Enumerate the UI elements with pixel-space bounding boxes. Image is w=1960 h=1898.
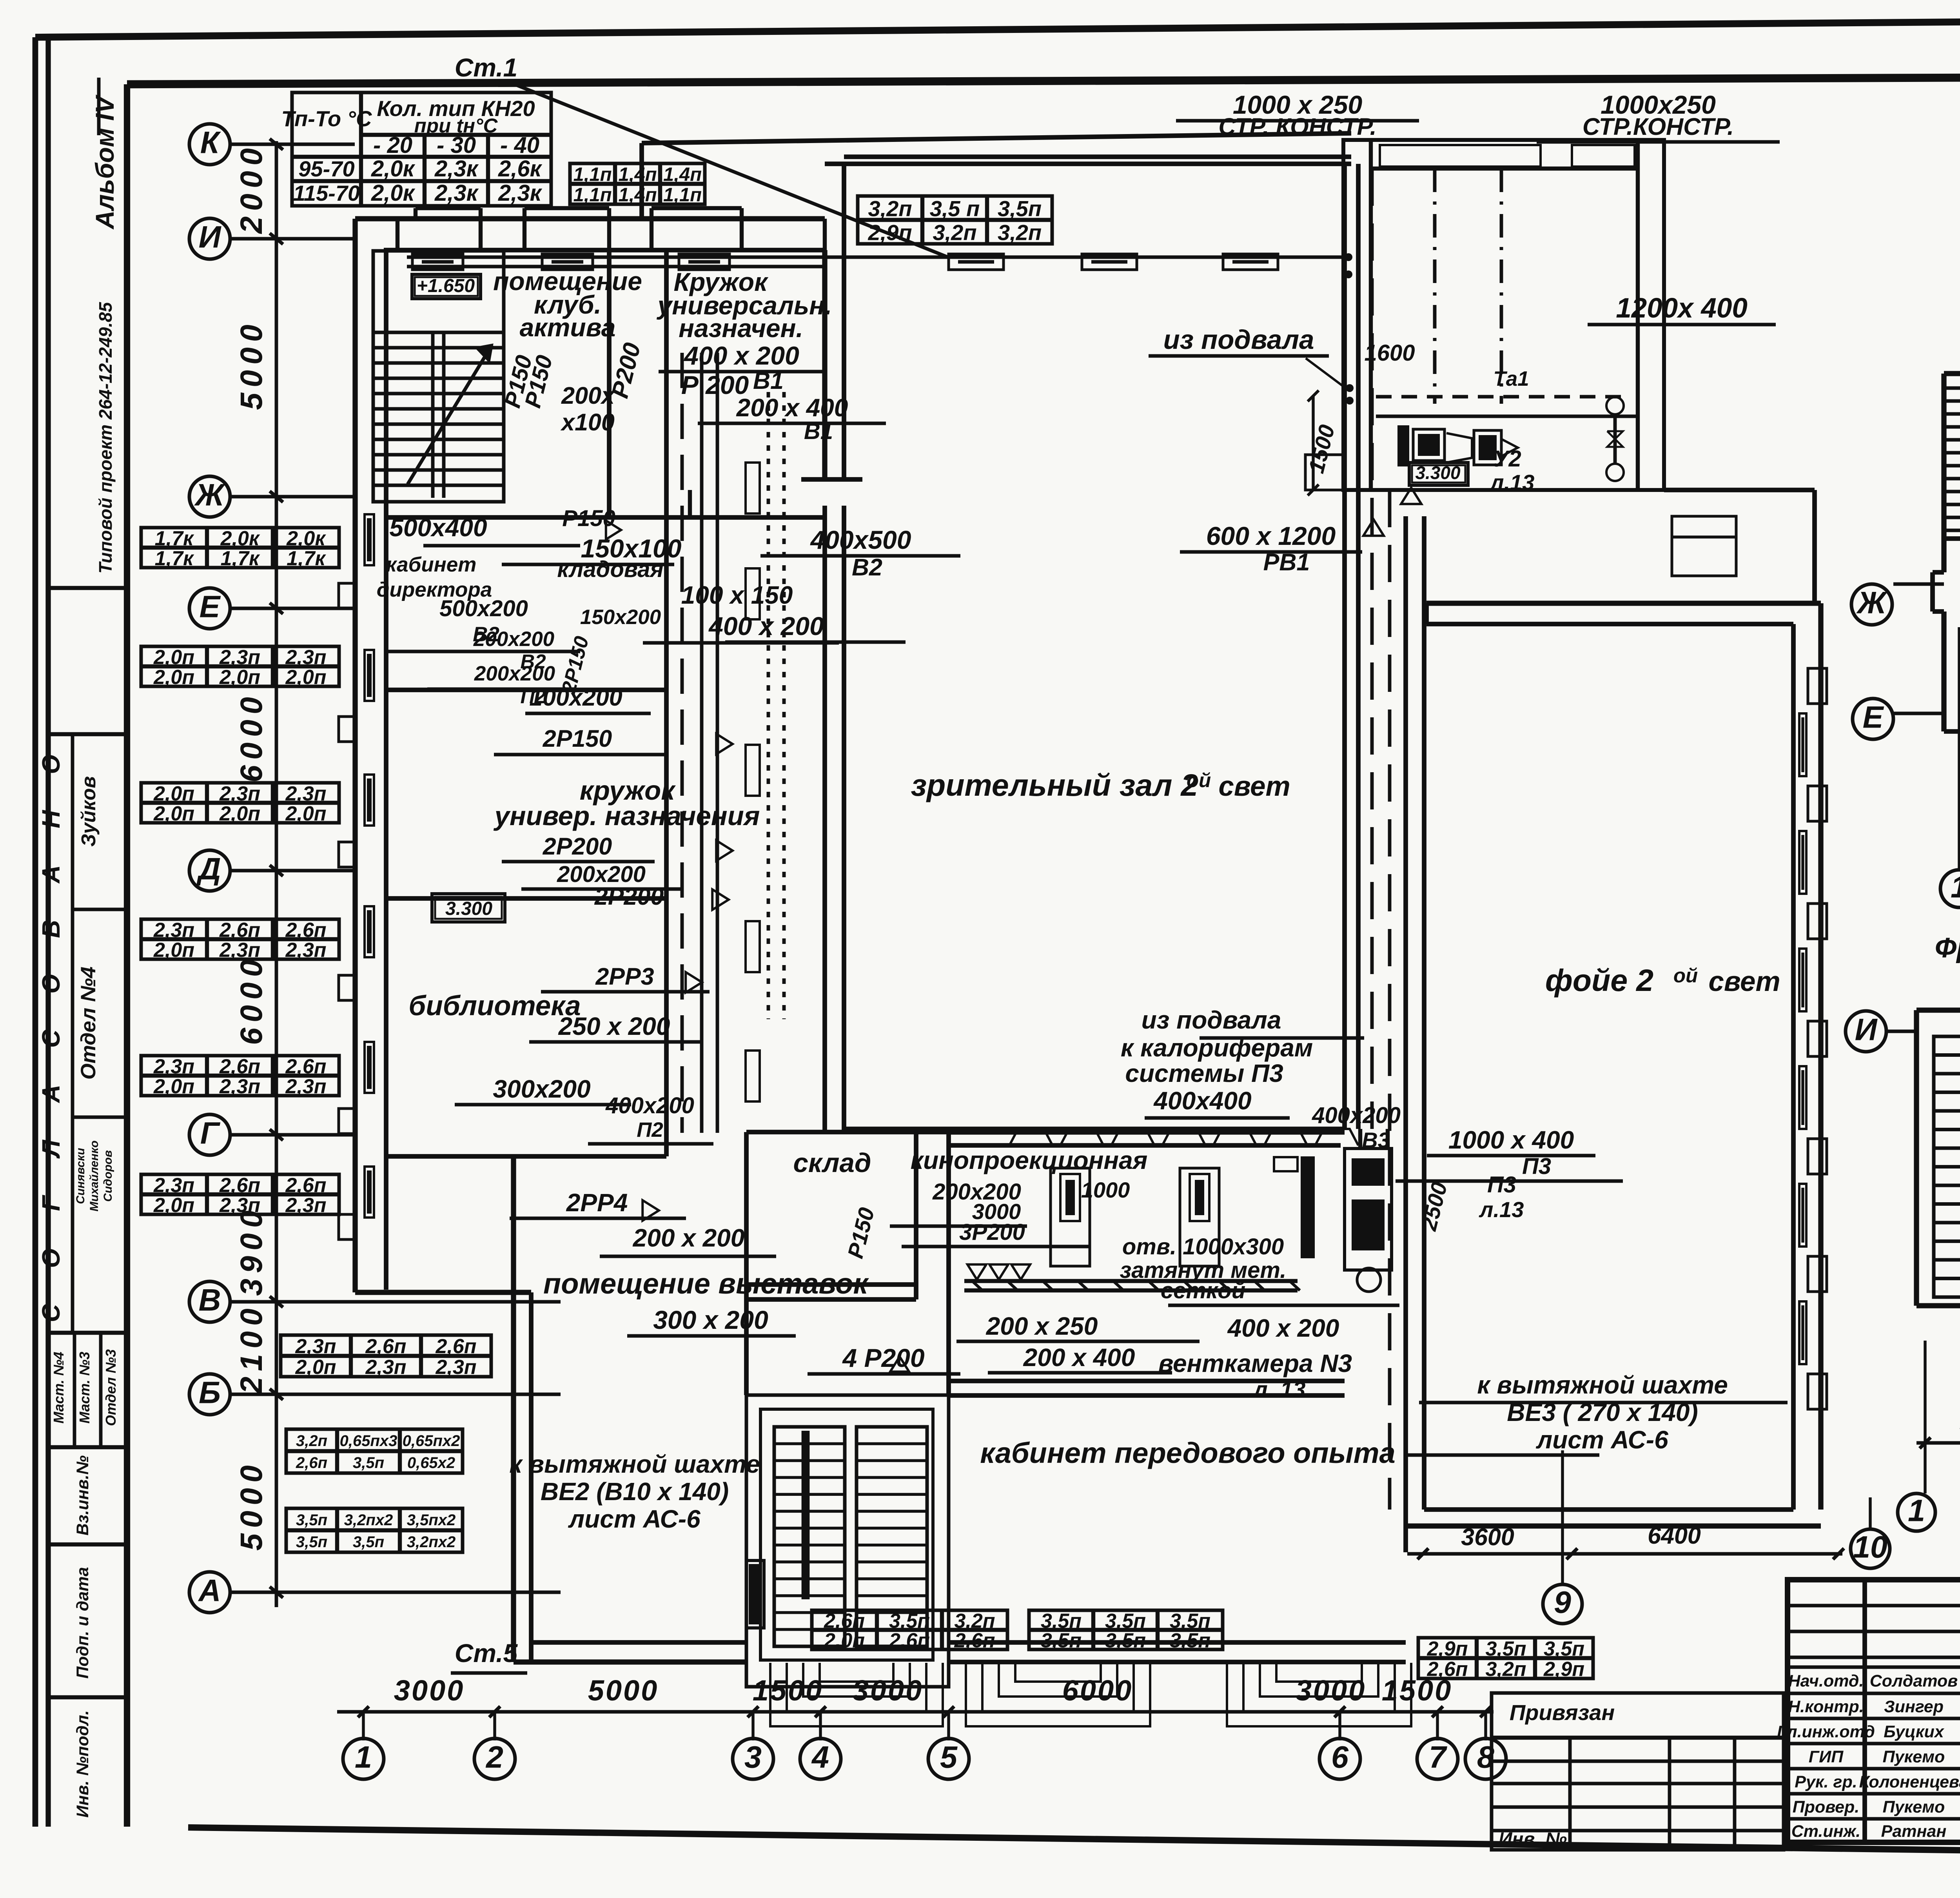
svg-text:1,4п: 1,4п: [663, 164, 702, 185]
svg-text:2,6п: 2,6п: [365, 1335, 406, 1358]
svg-text:О: О: [37, 1248, 65, 1268]
svg-text:2,0п: 2,0п: [153, 1075, 194, 1098]
svg-text:Р150: Р150: [562, 506, 615, 531]
svg-text:3.300: 3.300: [1415, 463, 1461, 483]
svg-text:2,0п: 2,0п: [153, 1194, 194, 1217]
svg-text:1,7к: 1,7к: [155, 527, 194, 550]
svg-text:150х200: 150х200: [580, 606, 661, 629]
svg-text:1: 1: [1951, 869, 1960, 904]
svg-text:3.300: 3.300: [445, 898, 492, 919]
svg-text:2,0п: 2,0п: [153, 646, 194, 669]
svg-text:СТР.КОНСТР.: СТР.КОНСТР.: [1583, 113, 1734, 140]
svg-text:2,3п: 2,3п: [153, 1055, 194, 1078]
svg-text:кабинет: кабинет: [386, 553, 477, 576]
svg-text:из подвала: из подвала: [1163, 325, 1314, 355]
svg-text:1,7к: 1,7к: [221, 547, 260, 570]
svg-text:2,0п: 2,0п: [153, 782, 194, 805]
svg-text:3,2п: 3,2п: [868, 196, 912, 221]
svg-text:2,0к: 2,0к: [286, 527, 326, 550]
svg-text:4 Р200: 4 Р200: [842, 1343, 924, 1372]
svg-text:2,0п: 2,0п: [219, 802, 260, 825]
svg-text:Е: Е: [1863, 699, 1884, 734]
svg-text:И: И: [199, 219, 222, 254]
svg-text:ВЕ2 (В10 х 140): ВЕ2 (В10 х 140): [541, 1477, 729, 1506]
svg-text:400 х 200: 400 х 200: [683, 341, 799, 370]
svg-text:Инв. №подл.: Инв. №подл.: [73, 1710, 92, 1818]
svg-text:3,5п: 3,5п: [353, 1533, 384, 1551]
svg-text:3,5п: 3,5п: [353, 1454, 384, 1472]
svg-text:2,3п: 2,3п: [219, 782, 260, 805]
svg-text:1600: 1600: [1364, 340, 1415, 366]
svg-text:600 х 1200: 600 х 1200: [1206, 521, 1336, 550]
svg-text:системы П3: системы П3: [1125, 1059, 1283, 1087]
svg-text:Маст. №4: Маст. №4: [51, 1352, 67, 1423]
svg-text:300 х 200: 300 х 200: [653, 1305, 768, 1334]
svg-text:300х200: 300х200: [493, 1075, 590, 1103]
svg-text:1,7к: 1,7к: [155, 547, 194, 570]
svg-text:С: С: [37, 1029, 65, 1048]
svg-text:1000 х 400: 1000 х 400: [1448, 1126, 1574, 1154]
svg-text:10: 10: [1853, 1529, 1887, 1564]
svg-text:л. 13: л. 13: [1252, 1377, 1306, 1403]
svg-text:400 х 200: 400 х 200: [708, 611, 824, 641]
svg-text:2,6п: 2,6п: [219, 1174, 260, 1197]
svg-text:0,65х2: 0,65х2: [407, 1454, 455, 1472]
svg-text:1,7к: 1,7к: [287, 547, 326, 570]
svg-text:Привязан: Привязан: [1510, 1700, 1615, 1725]
svg-text:2РР3: 2РР3: [595, 963, 654, 990]
svg-text:О: О: [37, 755, 65, 774]
svg-text:Г: Г: [37, 1195, 65, 1211]
svg-text:3,2п: 3,2п: [998, 220, 1042, 245]
svg-text:6000: 6000: [234, 954, 269, 1045]
svg-text:2,3п: 2,3п: [219, 1075, 260, 1098]
svg-text:Буцких: Буцких: [1884, 1722, 1945, 1741]
svg-text:актива: актива: [520, 313, 616, 342]
svg-text:3,5 п: 3,5 п: [930, 196, 980, 221]
svg-text:Н: Н: [37, 809, 65, 828]
svg-text:7: 7: [1429, 1739, 1448, 1774]
svg-text:3900: 3900: [234, 1205, 269, 1296]
svg-text:6400: 6400: [1648, 1522, 1701, 1549]
svg-text:2,3п: 2,3п: [285, 782, 326, 805]
svg-text:3,5п: 3,5п: [296, 1533, 327, 1551]
svg-text:Ст.1: Ст.1: [455, 53, 518, 82]
svg-text:2,0п: 2,0п: [153, 939, 194, 962]
svg-text:2,6п: 2,6п: [219, 919, 260, 942]
svg-text:3: 3: [744, 1739, 762, 1774]
svg-text:л.13: л.13: [1479, 1197, 1524, 1222]
svg-text:2,0п: 2,0п: [285, 666, 326, 689]
svg-text:200 х 250: 200 х 250: [986, 1312, 1098, 1340]
svg-text:5: 5: [940, 1739, 958, 1774]
svg-text:2,3п: 2,3п: [435, 1356, 476, 1379]
svg-text:3,5п: 3,5п: [1485, 1637, 1526, 1660]
svg-text:3Р200: 3Р200: [959, 1219, 1025, 1245]
svg-text:В: В: [198, 1282, 221, 1317]
svg-text:2,0к: 2,0к: [220, 527, 260, 550]
svg-text:Ратнан: Ратнан: [1881, 1822, 1947, 1841]
svg-text:2,0п: 2,0п: [285, 802, 326, 825]
svg-text:Л: Л: [37, 1139, 65, 1159]
svg-text:Солдатов: Солдатов: [1870, 1672, 1958, 1691]
svg-text:2,3п: 2,3п: [285, 939, 326, 962]
svg-text:Синявски: Синявски: [74, 1148, 87, 1204]
svg-text:Типовой проект 264-12-249.85: Типовой проект 264-12-249.85: [95, 301, 116, 573]
svg-text:2,0к: 2,0к: [371, 180, 416, 206]
svg-text:400 х 200: 400 х 200: [1227, 1314, 1339, 1342]
svg-text:250 х 200: 250 х 200: [558, 1012, 670, 1040]
svg-text:2,3к: 2,3к: [434, 156, 479, 181]
svg-text:П3: П3: [1522, 1154, 1551, 1179]
svg-text:400х200: 400х200: [1312, 1103, 1401, 1128]
svg-text:Пукемо: Пукемо: [1883, 1747, 1945, 1766]
svg-text:2,0п: 2,0п: [219, 666, 260, 689]
svg-text:1,1п: 1,1п: [573, 164, 612, 185]
svg-text:200 х 200: 200 х 200: [633, 1224, 745, 1252]
svg-text:Г: Г: [200, 1115, 221, 1150]
svg-text:универ. назначения: универ. назначения: [494, 801, 760, 831]
svg-text:ой: ой: [1673, 964, 1698, 987]
svg-text:2Р150: 2Р150: [543, 725, 612, 752]
svg-text:200 х 400: 200 х 400: [736, 394, 848, 422]
svg-text:3,5п: 3,5п: [296, 1512, 327, 1529]
svg-text:2РР4: 2РР4: [566, 1189, 628, 1217]
svg-text:Ст.инж.: Ст.инж.: [1791, 1822, 1861, 1841]
svg-text:К: К: [200, 125, 221, 160]
svg-text:склад: склад: [793, 1148, 871, 1178]
svg-text:назначен.: назначен.: [679, 314, 803, 343]
svg-text:Сидоров: Сидоров: [102, 1150, 114, 1202]
svg-text:2,3п: 2,3п: [285, 646, 326, 669]
svg-text:0,65пх3: 0,65пх3: [340, 1432, 397, 1450]
svg-text:Ст.5: Ст.5: [455, 1639, 518, 1668]
svg-text:2000: 2000: [234, 143, 269, 234]
svg-text:0,65пх2: 0,65пх2: [403, 1432, 460, 1450]
svg-text:2,3п: 2,3п: [219, 1194, 260, 1217]
svg-text:3,5п: 3,5п: [1544, 1637, 1584, 1660]
svg-text:Ж: Ж: [1856, 585, 1887, 620]
svg-text:зрительный зал 2: зрительный зал 2: [911, 768, 1198, 802]
svg-text:2,0п: 2,0п: [153, 666, 194, 689]
svg-text:2,3п: 2,3п: [219, 939, 260, 962]
svg-text:3,2пх2: 3,2пх2: [407, 1533, 456, 1551]
svg-text:2,3п: 2,3п: [153, 919, 194, 942]
svg-text:Вз.инв.№: Вз.инв.№: [73, 1455, 92, 1535]
svg-text:2,9п: 2,9п: [1426, 1637, 1468, 1660]
svg-text:Тп-То °С: Тп-То °С: [281, 106, 373, 131]
svg-text:1500: 1500: [1382, 1674, 1453, 1707]
svg-text:свет: свет: [1218, 771, 1290, 802]
svg-text:2,9п: 2,9п: [1543, 1658, 1584, 1680]
svg-text:3,5пх2: 3,5пх2: [407, 1512, 456, 1529]
svg-text:115-70: 115-70: [293, 181, 360, 205]
svg-text:6000: 6000: [1062, 1674, 1133, 1707]
svg-text:5000: 5000: [234, 319, 269, 410]
svg-text:2,3п: 2,3п: [285, 1194, 326, 1217]
svg-text:Пукемо: Пукемо: [1883, 1798, 1945, 1816]
svg-text:Провер.: Провер.: [1793, 1798, 1860, 1816]
svg-text:Та1: Та1: [1493, 367, 1529, 390]
svg-text:2,3п: 2,3п: [365, 1356, 406, 1379]
svg-text:из подвала: из подвала: [1142, 1006, 1281, 1034]
svg-text:2,0к: 2,0к: [371, 156, 416, 181]
svg-text:фойе 2: фойе 2: [1545, 963, 1653, 998]
svg-text:Михайленко: Михайленко: [88, 1140, 101, 1211]
svg-text:2,6п: 2,6п: [285, 1055, 326, 1078]
svg-text:500х200: 500х200: [439, 596, 528, 621]
svg-text:100 х 150: 100 х 150: [681, 581, 793, 609]
svg-text:Фрагмент плана на отм. 6.60: Фрагмент плана на отм. 6.600: [1935, 933, 1960, 964]
svg-text:Н.контр.: Н.контр.: [1788, 1697, 1864, 1716]
svg-text:В: В: [37, 920, 65, 938]
svg-text:П3: П3: [1487, 1172, 1516, 1198]
svg-text:1000: 1000: [1081, 1178, 1130, 1202]
svg-text:3000: 3000: [853, 1674, 924, 1707]
svg-text:1,1п: 1,1п: [663, 184, 702, 205]
svg-text:И: И: [1855, 1012, 1878, 1047]
svg-text:отв. 1000х300: отв. 1000х300: [1122, 1234, 1284, 1259]
svg-text:2,6п: 2,6п: [285, 919, 326, 942]
svg-text:х100: х100: [560, 409, 615, 435]
svg-text:Б: Б: [199, 1375, 221, 1410]
svg-text:1,1п: 1,1п: [573, 184, 612, 205]
svg-text:Гл.инж.отд: Гл.инж.отд: [1777, 1722, 1875, 1741]
svg-text:2,6п: 2,6п: [285, 1174, 326, 1197]
svg-text:5000: 5000: [234, 1460, 269, 1551]
svg-text:Маст. №3: Маст. №3: [76, 1352, 93, 1423]
svg-text:сеткой: сеткой: [1161, 1278, 1245, 1303]
svg-text:Зингер: Зингер: [1884, 1697, 1944, 1716]
svg-text:венткамера N3: венткамера N3: [1158, 1349, 1352, 1377]
svg-text:В3: В3: [1362, 1128, 1390, 1152]
svg-text:3,2п: 3,2п: [1485, 1658, 1526, 1680]
svg-text:2,3п: 2,3п: [285, 1075, 326, 1098]
svg-text:Рук. гр.: Рук. гр.: [1795, 1773, 1857, 1791]
svg-text:лист АС-6: лист АС-6: [1535, 1426, 1668, 1454]
svg-text:3,5п: 3,5п: [998, 196, 1042, 221]
svg-text:95-70: 95-70: [298, 156, 354, 181]
svg-text:2,3п: 2,3п: [219, 646, 260, 669]
svg-text:2Р200: 2Р200: [543, 833, 612, 860]
svg-text:2,6п: 2,6п: [889, 1629, 930, 1652]
svg-text:- 20: - 20: [373, 132, 412, 158]
svg-text:2,6к: 2,6к: [498, 156, 543, 181]
svg-text:2100: 2100: [234, 1303, 269, 1395]
svg-text:л.13: л.13: [1489, 470, 1535, 495]
svg-text:2,3к: 2,3к: [434, 180, 479, 206]
svg-text:200х: 200х: [561, 382, 615, 409]
svg-text:Е: Е: [200, 589, 221, 624]
svg-text:Альбом IV: Альбом IV: [90, 94, 119, 230]
svg-text:А: А: [37, 865, 65, 884]
svg-text:500х400: 500х400: [389, 514, 487, 542]
svg-text:5000: 5000: [588, 1674, 659, 1707]
svg-text:В2: В2: [852, 554, 882, 581]
svg-text:О: О: [37, 974, 65, 994]
svg-text:200х200: 200х200: [474, 662, 555, 685]
svg-text:9: 9: [1554, 1584, 1571, 1619]
svg-text:3000: 3000: [1296, 1674, 1367, 1707]
svg-text:У2: У2: [1493, 446, 1521, 472]
svg-text:1200х 400: 1200х 400: [1616, 293, 1748, 324]
svg-text:Колоненцева: Колоненцева: [1859, 1773, 1960, 1791]
svg-text:- 30: - 30: [437, 132, 476, 158]
svg-text:- 40: - 40: [500, 132, 539, 158]
svg-text:2,6п: 2,6п: [296, 1454, 327, 1472]
svg-text:1: 1: [1908, 1493, 1925, 1528]
svg-text:2,3к: 2,3к: [498, 180, 543, 206]
svg-text:Д: Д: [196, 851, 221, 886]
svg-text:3,2пх2: 3,2пх2: [344, 1512, 393, 1529]
svg-text:6000: 6000: [234, 691, 269, 782]
svg-text:Зуйков: Зуйков: [77, 776, 100, 847]
svg-text:200 х 400: 200 х 400: [1023, 1343, 1135, 1372]
svg-text:4: 4: [811, 1739, 829, 1774]
svg-text:1,4п: 1,4п: [618, 164, 657, 185]
svg-text:А: А: [37, 1085, 65, 1103]
svg-text:3,2п: 3,2п: [933, 220, 976, 245]
svg-text:СТР. КОНСТР.: СТР. КОНСТР.: [1218, 113, 1376, 140]
svg-text:свет: свет: [1708, 966, 1780, 997]
svg-text:библиотека: библиотека: [408, 991, 581, 1022]
svg-text:к вытяжной шахте: к вытяжной шахте: [509, 1450, 760, 1478]
svg-text:200х200: 200х200: [473, 628, 554, 651]
svg-text:С: С: [37, 1304, 65, 1322]
svg-text:к вытяжной шахте: к вытяжной шахте: [1477, 1371, 1728, 1399]
svg-text:2,0п: 2,0п: [153, 802, 194, 825]
svg-text:3000: 3000: [394, 1674, 465, 1707]
svg-text:2,0п: 2,0п: [295, 1356, 336, 1379]
svg-text:2Р200: 2Р200: [594, 883, 664, 910]
svg-text:П2: П2: [637, 1118, 663, 1141]
svg-text:Отдел №4: Отдел №4: [77, 967, 100, 1080]
svg-text:2,6п: 2,6п: [435, 1335, 476, 1358]
svg-text:1: 1: [355, 1739, 372, 1774]
svg-text:Нач.отд.: Нач.отд.: [1788, 1672, 1864, 1691]
svg-text:2: 2: [485, 1739, 503, 1774]
svg-text:Инв. №: Инв. №: [1499, 1829, 1567, 1850]
svg-text:А: А: [198, 1573, 221, 1608]
svg-text:400х400: 400х400: [1153, 1087, 1251, 1115]
svg-text:помещение выставок: помещение выставок: [543, 1267, 869, 1300]
svg-text:ой: ой: [1187, 769, 1211, 791]
svg-text:Ж: Ж: [194, 477, 225, 512]
svg-text:3600: 3600: [1461, 1524, 1514, 1550]
svg-text:400х500: 400х500: [810, 525, 911, 554]
svg-text:2,3п: 2,3п: [295, 1335, 336, 1358]
svg-text:1,4п: 1,4п: [618, 184, 657, 205]
svg-text:2,6п: 2,6п: [219, 1055, 260, 1078]
svg-text:2,3п: 2,3п: [153, 1174, 194, 1197]
svg-text:Подп. и дата: Подп. и дата: [73, 1567, 92, 1679]
svg-text:Отдел №3: Отдел №3: [103, 1349, 119, 1426]
svg-text:+1.650: +1.650: [417, 276, 475, 296]
svg-text:кабинет передового опыта: кабинет передового опыта: [980, 1437, 1395, 1469]
svg-text:ГИП: ГИП: [1809, 1747, 1844, 1766]
svg-text:6: 6: [1331, 1739, 1349, 1774]
svg-text:3,2п: 3,2п: [296, 1432, 327, 1450]
svg-text:лист АС-6: лист АС-6: [568, 1505, 701, 1533]
svg-text:150х100: 150х100: [581, 534, 682, 563]
svg-text:кинопроекционная: кинопроекционная: [911, 1146, 1148, 1174]
